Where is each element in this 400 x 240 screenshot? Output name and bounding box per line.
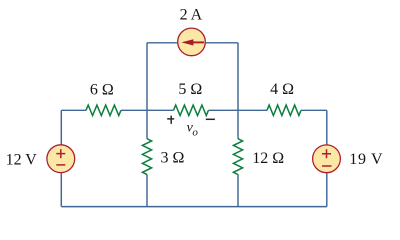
wire: middle horizontal, between 5-ohm and 4-ohm <box>209 109 268 111</box>
wire: 12-ohm branch upper lead <box>237 110 239 139</box>
wire: 3-ohm branch upper lead <box>146 110 148 139</box>
svg-text:3 Ω: 3 Ω <box>161 150 185 167</box>
svg-text:19 V: 19 V <box>349 151 383 168</box>
voltage source V1 minus sign <box>56 164 65 166</box>
wire: 12-ohm branch lower lead <box>237 174 239 206</box>
svg-text:5 Ω: 5 Ω <box>178 81 202 98</box>
resistor 5-ohm zigzag <box>174 105 209 116</box>
voltage source V2 19V circle <box>313 145 341 173</box>
wire: left outer vertical through 12V source <box>60 110 62 206</box>
current source arrow (pointing left) <box>192 41 204 43</box>
label vo minus polarity mark <box>206 118 215 120</box>
svg-text:2 A: 2 A <box>180 7 203 24</box>
voltage source V2 minus sign <box>322 165 332 167</box>
resistor 6-ohm zigzag <box>86 105 121 116</box>
label vo plus polarity mark <box>167 116 174 124</box>
voltage source V1 plus sign <box>56 149 65 158</box>
svg-text:6 Ω: 6 Ω <box>90 81 114 98</box>
wire: middle horizontal, between 6-ohm and 5-ohm <box>121 109 174 111</box>
voltage source V2 plus sign <box>322 149 331 158</box>
resistor 4-ohm zigzag <box>267 105 301 116</box>
wire: middle horizontal, 4-ohm to right corner <box>301 109 327 111</box>
resistor 12-ohm vertical zigzag <box>233 139 242 175</box>
wire: bottom horizontal <box>61 206 327 208</box>
svg-text:12 V: 12 V <box>6 151 38 168</box>
resistor 3-ohm vertical zigzag <box>142 139 151 175</box>
wire: top horizontal through current source <box>147 42 238 44</box>
wire: middle horizontal, left segment to 6-ohm <box>61 109 86 111</box>
current source I1 2A circle <box>178 28 206 56</box>
voltage source V1 12V circle <box>47 145 75 173</box>
svg-text:4 Ω: 4 Ω <box>270 81 294 98</box>
wire: top loop left vertical <box>146 43 148 111</box>
wire: 3-ohm branch lower lead <box>146 174 148 206</box>
wire: right outer vertical through 19V source <box>326 110 328 206</box>
svg-text:12 Ω: 12 Ω <box>252 150 284 167</box>
svg-text:o: o <box>192 126 198 138</box>
wire: top loop right vertical <box>237 43 239 111</box>
